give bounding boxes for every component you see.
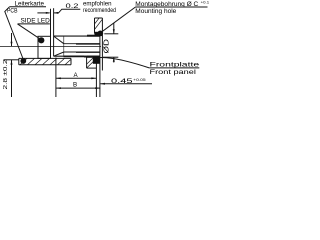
dim D ext top (104, 33, 118, 35)
dim 2.8 line bottom (11, 60, 13, 97)
dim D arrow bottom (113, 57, 115, 62)
dim 0.45 arrow (100, 83, 105, 85)
dim A arrow right (91, 77, 96, 79)
underline Montagebohrung (135, 6, 207, 8)
svg-text:B: B (73, 82, 77, 89)
axis line (0, 45, 101, 47)
foot left edge (86, 57, 88, 69)
svg-text:ØD: ØD (102, 38, 111, 53)
leader PCB (5, 7, 24, 60)
label A (74, 72, 79, 79)
pipe cone bottom (54, 52, 64, 56)
panel upper rear face (94, 18, 96, 34)
label B (73, 82, 77, 89)
panel upper dark fill (95, 32, 103, 36)
svg-text:Front panel: Front panel (150, 69, 196, 76)
svg-text:Mounting hole: Mounting hole (135, 8, 177, 15)
foot hatch (87, 57, 97, 68)
dim 2.8 arrow bottom (11, 60, 13, 65)
leader Montagebohrung (101, 7, 135, 32)
dim B arrow left (56, 87, 61, 89)
foot right edge / ext line B right (95, 57, 97, 97)
label diameter D (102, 38, 111, 53)
dim D ext bottom (103, 56, 118, 58)
dim A arrow left (56, 77, 61, 79)
label Frontplatte (150, 62, 201, 76)
pipe input face (53, 36, 55, 56)
panel upper hatch (95, 18, 103, 29)
pipe step vertical (63, 36, 65, 56)
dim D line top (113, 23, 115, 34)
underline Frontplatte (149, 67, 199, 69)
dim A line (56, 77, 96, 79)
label 0.45 (111, 78, 146, 85)
svg-text:+0.05: +0.05 (133, 78, 146, 82)
leader dot on PCB (20, 58, 26, 64)
leader dot mounting hole (97, 31, 103, 37)
pipe inner bottom thick (76, 51, 100, 53)
leader SIDE LED (18, 24, 42, 40)
dim D arrow top (113, 29, 115, 34)
pipe inner top thick (76, 43, 100, 45)
label SIDE LED (21, 18, 51, 25)
dim B line (56, 87, 100, 89)
dim 0.45 line (100, 83, 152, 85)
dim 0.2 left line (37, 12, 49, 14)
PCB left edge (18, 58, 20, 64)
ext line A/B left (55, 58, 57, 98)
leader dot on LED (38, 37, 44, 43)
hole top edge thick (87, 35, 100, 37)
PCB hatch (20, 58, 71, 64)
ext line LED face (50, 9, 52, 37)
label Montagebohrung (135, 1, 209, 16)
panel front face (101, 18, 103, 71)
PCB top edge (19, 57, 71, 59)
dim 0.2 right arrow (54, 12, 59, 14)
svg-text:recommended: recommended (83, 7, 116, 14)
label 2.8 (3, 60, 9, 90)
leader Frontplatte (99, 58, 150, 68)
light pipe bottom edge (54, 55, 100, 57)
PCB bottom edge (19, 64, 71, 66)
leader dot front panel (94, 57, 100, 63)
dim D line bottom (113, 57, 115, 62)
dim 0.2 left arrow (46, 12, 51, 14)
dim 2.8 line top (11, 33, 13, 46)
label 0.2 (66, 1, 117, 14)
light pipe top edge (54, 35, 100, 37)
foot bottom edge (87, 67, 97, 69)
underline SIDE LED (18, 23, 50, 25)
ext line pipe input face (53, 8, 55, 36)
LED package box (38, 36, 51, 58)
hole bottom edge thickest (87, 56, 100, 58)
pipe cone top (54, 36, 64, 44)
label Leiterkarte (7, 0, 45, 14)
svg-text:+0.1: +0.1 (201, 1, 210, 5)
PCB right edge (70, 58, 72, 64)
underline Leiterkarte/PCB (10, 6, 46, 8)
svg-text:2.8 ±0.2: 2.8 ±0.2 (3, 60, 9, 90)
dim 2.8 ext bottom (4, 59, 19, 61)
foot dark fill (93, 57, 100, 64)
dim B arrow right (95, 87, 100, 89)
pipe inner top line (64, 43, 100, 45)
panel top edge (95, 17, 103, 19)
pipe front face (99, 36, 101, 97)
dim 0.2 right tail and shelf (54, 9, 81, 13)
pipe inner bottom line (64, 51, 100, 53)
dim 2.8 arrow top (11, 42, 13, 47)
hole bottom edge thick (64, 55, 100, 57)
